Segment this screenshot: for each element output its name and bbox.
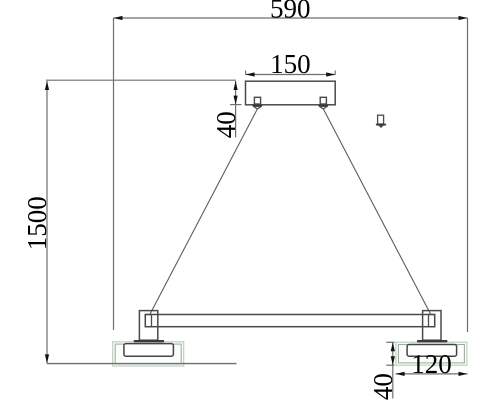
wire: 1500 dimension line <box>46 81 48 363</box>
node: top 40 up arrow <box>234 81 238 90</box>
wire: 150 left tick <box>245 71 247 75</box>
component: light bar <box>145 315 434 327</box>
component: left hook flange <box>252 105 262 107</box>
node: 120 left arrow <box>396 372 405 376</box>
wire: left suspension cable <box>150 109 258 315</box>
node: 150 right arrow <box>326 72 335 76</box>
component: left connector block <box>145 315 151 327</box>
node: 120 right arrow <box>459 372 468 376</box>
component: right lamp flange <box>417 340 448 342</box>
wire: right extension line of 590 <box>467 18 469 332</box>
node: top 40 down arrow <box>234 96 238 105</box>
wire: top horizontal extension line <box>46 79 236 81</box>
wire: 150 right tick <box>334 71 336 75</box>
component: right hook square <box>320 97 326 104</box>
node: bottom 40 up arrow <box>391 342 395 351</box>
component: left lamp head highlight box <box>113 342 184 366</box>
component: right stem <box>423 311 441 341</box>
svg-text:1500: 1500 <box>22 196 52 250</box>
wire: right suspension cable <box>323 109 431 315</box>
component: left hook square <box>254 97 260 104</box>
component: right lamp lens <box>407 345 457 357</box>
node: 150 left arrow <box>246 72 255 76</box>
node: bottom 40 down arrow <box>391 356 395 365</box>
node: 590 left arrow <box>114 16 123 20</box>
svg-text:120: 120 <box>411 349 452 379</box>
wire: 150 dimension line <box>246 74 336 76</box>
wire: bottom 40 top tick <box>386 341 394 343</box>
svg-text:40: 40 <box>211 111 241 138</box>
component: right hook funnel <box>320 107 327 109</box>
wire: bottom 40 dimension line <box>392 342 394 398</box>
component: right hook flange <box>318 105 328 107</box>
component: mounting pin symbol <box>376 115 386 128</box>
wire: bottom horizontal extension line <box>47 363 237 365</box>
wire: bottom 40 bottom tick <box>386 364 394 366</box>
component: right connector block <box>429 315 435 327</box>
node: 590 right arrow <box>459 16 468 20</box>
component: left lamp flange <box>134 340 165 342</box>
component: left hook funnel <box>254 107 261 109</box>
component: right lamp head highlight box <box>396 342 467 365</box>
component: left stem <box>139 311 157 341</box>
svg-text:150: 150 <box>270 49 311 79</box>
wire: top 40 dimension line <box>235 81 237 138</box>
wire: 120 dimension line <box>396 373 468 375</box>
svg-text:40: 40 <box>368 373 398 400</box>
svg-text:590: 590 <box>270 0 311 24</box>
node: 1500 bottom arrow <box>45 354 49 363</box>
wire: left extension line of 590 <box>113 18 115 330</box>
wire: top 40 bottom tick <box>230 104 242 106</box>
component: left lamp lens <box>124 344 173 357</box>
component: ceiling canopy <box>246 81 336 105</box>
wire: 590 dimension line <box>114 17 468 19</box>
node: 1500 top arrow <box>45 81 49 90</box>
